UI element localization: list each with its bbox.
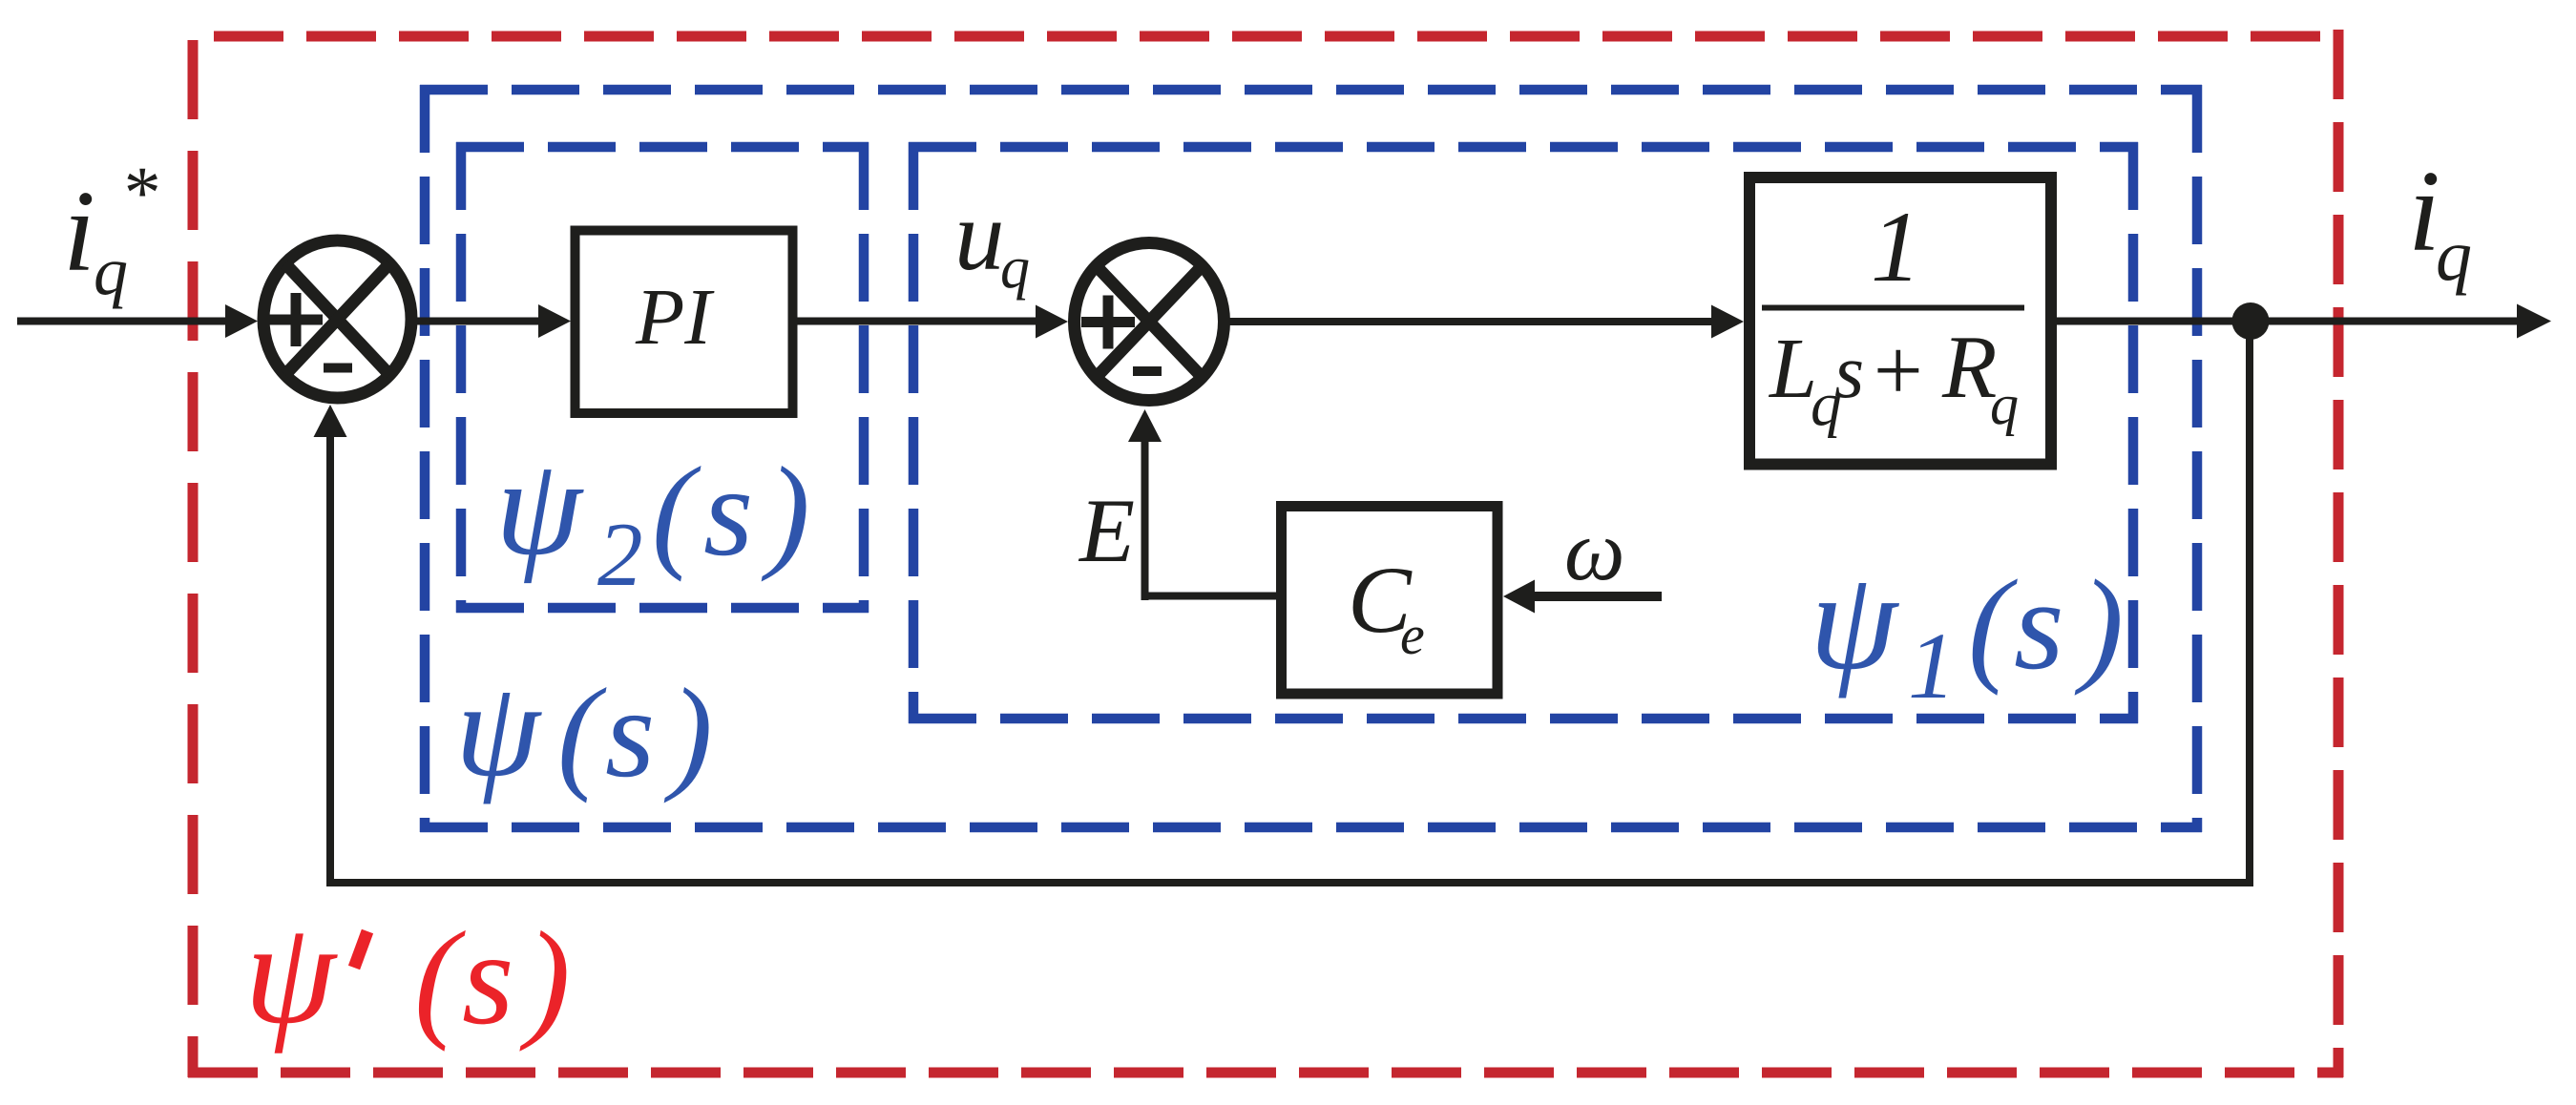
svg-text:ψ: ψ xyxy=(455,654,542,804)
svg-text:2: 2 xyxy=(597,504,643,605)
arrow into Ce right side xyxy=(1503,580,1535,614)
arrow into PI xyxy=(538,304,571,338)
summing junction 2 xyxy=(1075,243,1225,401)
wire sum1 to PI xyxy=(411,318,548,325)
E wire horizontal from Ce xyxy=(1141,593,1282,600)
arrow into sum2 bottom xyxy=(1128,409,1162,442)
blue dashed box psi2(s) xyxy=(456,142,869,613)
arrow into sum1 bottom xyxy=(314,405,347,437)
fraction bar xyxy=(1762,305,2024,311)
red dashed box psi'(s) xyxy=(188,30,2343,1077)
svg-text:ψ: ψ xyxy=(244,892,338,1054)
svg-text:e: e xyxy=(1400,604,1425,666)
feedback wire down from node xyxy=(2246,322,2253,887)
wire sum2 to transfer block xyxy=(1225,318,1721,325)
arrow into summing junction 1 xyxy=(225,304,258,338)
PI block xyxy=(576,231,793,414)
wire input iq* xyxy=(17,318,229,325)
minus sign sum1 xyxy=(324,364,352,373)
svg-text:s: s xyxy=(703,441,753,582)
plus sign sum1 xyxy=(269,293,323,346)
svg-text:q: q xyxy=(2436,216,2472,296)
svg-text:s: s xyxy=(2014,554,2064,697)
summing junction 1 xyxy=(263,240,411,398)
minus sign sum2 xyxy=(1133,366,1162,376)
svg-text:): ) xyxy=(2074,554,2124,697)
svg-text:(: ( xyxy=(652,441,702,582)
plus sign sum2 xyxy=(1081,296,1135,349)
svg-text:(: ( xyxy=(557,662,607,803)
svg-text:): ) xyxy=(761,441,810,582)
E wire vertical into sum2 xyxy=(1141,439,1149,600)
svg-text:): ) xyxy=(663,662,713,803)
svg-text:u: u xyxy=(954,179,1005,291)
svg-text:): ) xyxy=(519,905,571,1053)
svg-text:1: 1 xyxy=(1908,613,1956,719)
blue dashed box psi1(s) xyxy=(909,142,2138,723)
wire PI to sum2, label uq xyxy=(797,318,1045,325)
svg-text:ψ: ψ xyxy=(495,429,584,584)
svg-text:E: E xyxy=(1078,480,1135,581)
svg-text:1: 1 xyxy=(1871,191,1921,302)
svg-text:(: ( xyxy=(414,905,466,1053)
omega wire into Ce xyxy=(1531,592,1662,601)
svg-text:s: s xyxy=(605,662,655,803)
svg-text:q: q xyxy=(1990,373,2019,436)
output arrow iq xyxy=(2517,304,2551,339)
svg-text:ψ: ψ xyxy=(1810,543,1900,699)
transfer function block 1/(Lqs+Rq) xyxy=(1749,177,2051,465)
blue dashed box psi(s) middle xyxy=(420,85,2202,832)
svg-text:*: * xyxy=(120,151,157,234)
svg-text:R: R xyxy=(1941,318,1997,417)
arrow into transfer block xyxy=(1711,305,1744,339)
node dot xyxy=(2232,302,2270,340)
svg-text:(: ( xyxy=(1968,554,2018,697)
svg-text:s: s xyxy=(1834,330,1864,414)
svg-text:q: q xyxy=(94,233,128,309)
arrow into sum2 xyxy=(1036,305,1068,339)
svg-text:s: s xyxy=(462,905,513,1053)
svg-text:q: q xyxy=(1000,236,1030,301)
Ce block xyxy=(1282,507,1498,695)
svg-text:+: + xyxy=(1868,322,1927,419)
feedback wire bottom horizontal xyxy=(326,879,2253,886)
svg-text:ω: ω xyxy=(1564,504,1625,598)
wire transfer block to output xyxy=(2057,318,2522,325)
svg-text:i: i xyxy=(63,167,95,296)
svg-text:PI: PI xyxy=(635,273,715,362)
feedback wire up to sum1 xyxy=(326,434,334,886)
